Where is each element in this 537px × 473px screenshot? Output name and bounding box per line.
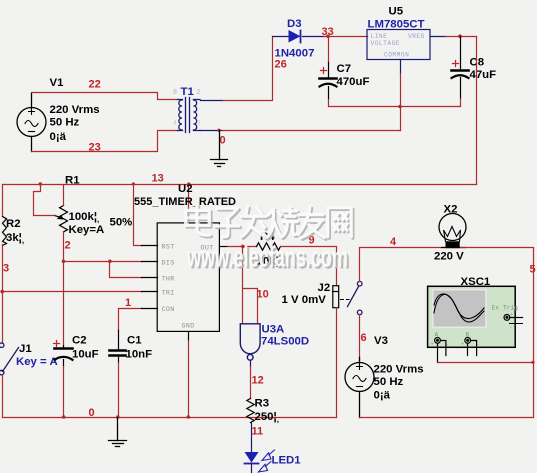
wire C8 bottom to common rail [460,99,462,107]
svg-text:-: - [510,325,512,331]
wire C1 bottom to ground rail [118,363,120,418]
relay J2 coil [333,286,339,308]
svg-text:74LS00D: 74LS00D [261,336,309,348]
junction C8 top [458,34,462,38]
wire net 12 gate output to R3 [250,367,252,399]
svg-text:VREG: VREG [408,33,425,40]
svg-text:GND: GND [182,322,195,329]
junction OUT / NAND input [241,245,245,249]
svg-text:100k¦,: 100k¦, [69,211,100,224]
watermark chinese characters [186,205,353,276]
wire node 33 down to C7 [328,37,330,63]
wire net 33 to regulator input [325,36,368,38]
svg-text:LED1: LED1 [272,455,302,467]
transformer T1 [178,98,201,133]
wire T1 secondary bottom to ground junction [201,130,223,132]
svg-text:4: 4 [173,120,177,127]
svg-text:DIS: DIS [162,259,175,266]
relay J2 contact [348,281,363,314]
wire net 6 contact bottom to V3 [359,315,361,363]
wire C2 bottom to ground rail [63,367,65,418]
svg-text:2: 2 [65,240,71,252]
svg-text:D3: D3 [287,18,302,30]
svg-text:J1: J1 [19,343,32,355]
wire net 13 VCC rail [3,184,477,186]
svg-text:CON: CON [162,306,175,313]
wire net 9 R4 to relay coil [281,247,337,286]
wire diode anode stub [273,36,289,38]
LED LED1 [245,450,275,473]
svg-text:12: 12 [252,375,264,387]
svg-text:Ex Trig: Ex Trig [492,305,519,312]
svg-text:11: 11 [252,426,264,438]
svg-text:0: 0 [89,407,95,419]
terminal B [465,338,477,356]
pin stub GND bottom [188,332,190,341]
svg-text:C1: C1 [127,335,142,347]
svg-text:-: - [447,342,449,348]
wire net 4 contact top to lamp [360,248,446,282]
svg-text:R3: R3 [255,398,270,410]
wire C7 bottom to common rail [328,100,330,107]
pin stub CON [142,308,158,310]
capacitor C7 [320,79,337,100]
wire R1 wiper to rail 13 [34,185,55,216]
pin stub DIS [142,261,158,263]
svg-text:47uF: 47uF [470,69,497,81]
wire common rail C7 to C8 [329,106,461,108]
svg-text:5: 5 [530,264,536,276]
svg-text:50 Hz: 50 Hz [374,376,404,388]
polarity plus C8 [453,61,459,67]
wire V3 bottom rail to right column [360,417,534,419]
wire R1 top terminal to rail 13 [63,185,65,206]
wire DIS-THR tie [110,262,142,278]
svg-text:-: - [477,342,479,348]
svg-text:3: 3 [3,263,9,275]
wire diode cathode to node 33 [303,36,325,38]
svg-text:R2: R2 [6,218,21,230]
svg-text:RST: RST [162,244,175,251]
IC U2 555 timer box [157,223,219,332]
svg-text:Key = A: Key = A [16,356,58,368]
svg-text:T1: T1 [181,86,195,98]
nand gate U3A [240,324,260,360]
junction common rail [398,105,402,109]
junction C2 ground [62,415,66,419]
pin stub U3A output [250,361,252,367]
terminal polarity marks [431,312,514,348]
wire scope A to net 5 [438,362,534,364]
wire regulator output [431,36,446,38]
svg-text:1 V 0mV: 1 V 0mV [282,294,327,306]
ground (main) [109,418,127,447]
junction C1 ground [116,415,120,419]
wire net 0 ground rail [3,417,337,419]
wire left column net 3 [2,245,4,344]
diode D3 [289,30,301,43]
polarity plus C2 [54,341,60,347]
svg-text:www.elecfans.com: www.elecfans.com [186,242,348,274]
oscilloscope XSC1 [428,286,516,347]
pin stub VCC top [188,216,190,223]
wire VCC to rail 13 [188,185,190,216]
wire net 11 R3 to LED1 [251,423,253,453]
svg-text:50%: 50% [110,217,133,229]
svg-text:+: + [431,342,434,348]
svg-text:Key=A: Key=A [69,224,105,236]
relay J2 linkage dashes [341,299,350,301]
svg-text:13: 13 [152,173,164,185]
junction node 33 / C7 [326,34,330,38]
svg-text:C2: C2 [72,335,87,347]
svg-text:4: 4 [390,236,397,248]
junction net 2 / DIS [62,260,66,264]
wire DIS to net 2 [64,261,142,263]
svg-text:LINE: LINE [371,33,388,40]
resistor R4 [257,243,281,250]
polarity plus C7 [321,68,327,74]
svg-text:470uF: 470uF [337,76,370,88]
junction scope wire on right column [531,361,534,364]
wire CON to C1 [119,309,142,331]
wire C1 top stem [118,331,120,350]
svg-text:220 Vrms: 220 Vrms [374,364,424,376]
capacitor C1 [110,351,126,363]
wire T1 secondary top to diode column [201,100,223,102]
source V1 [17,94,46,152]
wire C2 top stem [63,346,65,348]
svg-text:J2: J2 [318,282,331,294]
svg-text:U3A: U3A [262,324,285,336]
svg-text:THR: THR [162,276,175,283]
svg-text:C7: C7 [337,63,352,75]
junction TRI rail left [0,290,4,294]
svg-text:220 Vrms: 220 Vrms [50,104,100,116]
wire coil bottom to ground rail [336,308,338,418]
svg-text:TRI: TRI [162,290,175,297]
svg-text:3k¦,: 3k¦, [6,232,24,245]
svg-text:22: 22 [89,79,101,91]
svg-text:10nF: 10nF [126,349,153,361]
svg-text:10: 10 [257,289,269,301]
source V3 [345,358,374,418]
wire C8 top stem [460,37,462,69]
pin stub TRI [142,291,158,293]
wire OUT to R4 [228,246,257,248]
junction VCC rail 13 [187,182,190,185]
svg-text:220 V: 220 V [434,251,464,263]
svg-text:50 Hz: 50 Hz [50,117,80,129]
lamp X2 [439,214,466,242]
wire net 22 V1 top to T1 primary [32,93,178,100]
svg-text:23: 23 [89,142,101,154]
pin stub OUT [220,246,228,248]
wire R1 bottom down net 2 [63,232,65,346]
capacitor C2 [55,349,73,367]
regulator U5 LM7805CT [367,30,430,60]
svg-text:R1: R1 [65,175,80,187]
wire J1 bottom to ground rail [2,376,4,418]
wire net 23 V1 bottom to T1 primary [32,131,178,152]
svg-text:V1: V1 [50,77,65,89]
svg-text:LM7805CT: LM7805CT [368,19,425,31]
capacitor C8 [452,71,469,99]
junction 555 ground [187,415,191,419]
junction wiper on rail 13 [39,182,43,186]
terminal A [435,338,446,363]
svg-text:X2: X2 [444,204,458,216]
wire net 5 lamp right [461,248,534,418]
wire left column upper [2,185,4,217]
svg-text:0¡ä: 0¡ä [374,390,391,402]
ground (transformer) [211,131,228,167]
svg-text:10uF: 10uF [72,349,99,361]
potentiometer R1 [55,206,68,232]
svg-text:8: 8 [173,89,177,96]
wire 555 GND to ground rail [188,341,190,418]
svg-text:6: 6 [361,332,367,344]
pin stub THR [142,277,158,279]
svg-text:+: + [510,312,513,318]
svg-text:COMMON: COMMON [384,52,409,59]
wire RST to rail 13 [134,185,142,246]
junction RST on rail 13 [132,182,135,185]
svg-text:XSC1: XSC1 [461,276,491,288]
svg-text:U5: U5 [389,6,404,18]
svg-text:2: 2 [197,89,201,96]
svg-text:555_TIMER_RATED: 555_TIMER_RATED [134,196,236,208]
switch J1 [0,343,19,375]
junction transformer ground [217,129,220,132]
svg-text:3: 3 [197,120,201,127]
wire +5V output right and down [476,37,478,185]
wire lamp black stubs [442,247,466,249]
svg-text:VOLTAGE: VOLTAGE [371,40,401,47]
pin stub RST [142,245,158,247]
svg-text:V3: V3 [374,335,388,347]
wire TRI rail net 3 [3,291,142,293]
terminal Ext Trig [504,315,523,324]
svg-text:250¦,: 250¦, [255,411,279,424]
svg-text:26: 26 [275,59,287,71]
wire NAND inputs from OUT junction [243,247,258,324]
junction DIS/THR tie [108,260,112,264]
svg-text:1: 1 [125,297,131,309]
resistor R2 [3,217,7,246]
svg-text:0¡ä: 0¡ä [50,131,67,143]
svg-text:U2: U2 [178,183,193,195]
resistor R3 [247,399,254,423]
wire regulator COMMON pin down [400,60,402,74]
svg-text:0: 0 [220,135,226,147]
svg-text:+: + [461,342,464,348]
